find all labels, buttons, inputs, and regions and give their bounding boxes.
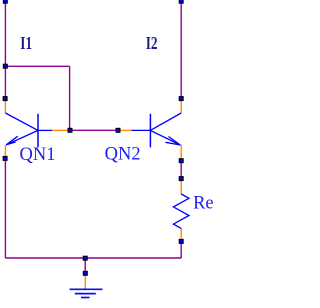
pin: ground pin (orange) — [84, 276, 86, 289]
pin: QN1 base pin (orange) — [52, 129, 68, 131]
svg-text:Re: Re — [193, 194, 214, 214]
wire: right branch vertical (I2 source to QN2 collector) — [180, 1, 182, 99]
ground bar 1 — [70, 288, 103, 290]
transistor QN2 (NPN, base at left) — [131, 113, 181, 147]
pin: resistor Re top pin (orange) — [180, 181, 182, 194]
wire: horizontal from left junction to base-feed corner — [5, 65, 69, 67]
node: ground pin connection — [83, 271, 88, 276]
QN2 emitter line — [150, 130, 180, 145]
node: QN2 emitter connection — [179, 158, 184, 163]
QN2 collector line — [150, 113, 181, 130]
node: base net junction at QN1 — [68, 128, 73, 133]
node: QN2 base connection — [116, 128, 121, 133]
QN1 collector line — [5, 113, 38, 130]
ground bar 3 — [81, 297, 90, 299]
QN1 emitter line — [6, 130, 38, 144]
wire: QN2 emitter to resistor Re top — [180, 161, 182, 179]
pin: QN1 collector pin (orange) — [4, 101, 6, 113]
transistor QN1 (NPN, mirrored, base at right) — [5, 113, 52, 147]
wire: bottom rail horizontal — [5, 257, 181, 259]
QN1 emitter arrow barb upper — [6, 136, 17, 145]
node: resistor Re pin 1 connection — [179, 176, 184, 181]
wire: ground stub — [84, 258, 86, 273]
QN2 base line — [131, 129, 150, 131]
node: QN1 emitter connection — [3, 156, 8, 161]
wire: left vertical junction to QN1 collector — [4, 66, 6, 98]
wire: QN1 emitter down left side — [4, 158, 6, 258]
pin: QN2 emitter pin (orange) — [180, 145, 182, 159]
node: QN2 collector connection — [179, 96, 184, 101]
QN2 emitter arrow barb lower — [166, 142, 181, 145]
node: I1 top terminal — [3, 0, 8, 4]
node: QN1 collector connection — [3, 96, 8, 101]
node: bottom rail junction to ground — [83, 256, 88, 261]
QN2 emitter arrow barb upper — [169, 137, 181, 146]
QN2 bar — [149, 114, 151, 148]
resistor Re zigzag body — [173, 194, 189, 228]
pin: QN2 collector pin (orange) — [180, 101, 182, 113]
QN1 base line — [38, 129, 52, 131]
svg-text:I2: I2 — [146, 34, 158, 53]
node: I2 top terminal — [179, 0, 184, 4]
QN1 emitter arrow barb lower — [6, 142, 15, 145]
svg-text:I1: I1 — [20, 34, 32, 53]
svg-text:QN1: QN1 — [20, 145, 56, 165]
svg-text:QN2: QN2 — [105, 145, 141, 165]
node: left junction (wire T) — [3, 64, 8, 69]
wire: vertical base-feed down to base net — [69, 66, 71, 130]
QN1 bar — [37, 114, 39, 148]
ground symbol — [70, 289, 103, 297]
pin: resistor Re bottom pin (orange) — [180, 228, 182, 239]
wire: resistor Re bottom to bottom rail — [180, 241, 182, 258]
node: resistor Re pin 2 connection — [179, 239, 184, 244]
pin: QN2 base pin (orange) — [120, 129, 131, 131]
wire: base net horizontal QN1 base to QN2 base — [70, 129, 118, 131]
ground bar 2 — [75, 293, 96, 295]
pin: QN1 emitter pin (orange) — [4, 145, 6, 156]
wire: left branch top vertical (I1 source to junction) — [4, 1, 6, 66]
connection squares (black with blue centers) — [3, 0, 184, 276]
